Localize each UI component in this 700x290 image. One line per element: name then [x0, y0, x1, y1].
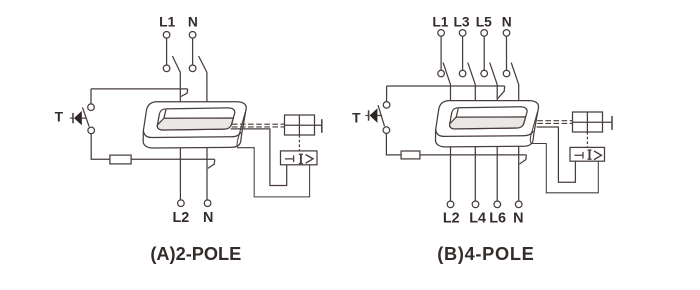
wire core to L2 terminal	[179, 148, 181, 200]
relay armature line	[285, 124, 322, 126]
wire core to L6 terminal	[496, 146, 498, 201]
dashed link relay to detector right	[586, 132, 588, 147]
terminal N top	[189, 32, 196, 39]
svg-text:L1: L1	[159, 14, 175, 29]
test button T	[70, 104, 95, 134]
fixed contact L1	[163, 65, 170, 72]
blade L3 and wire to core	[468, 63, 476, 101]
blade N and wire to core	[511, 63, 519, 101]
svg-text:N: N	[513, 211, 523, 227]
secondary winding and lead right	[530, 112, 598, 193]
terminal L2 right	[447, 201, 454, 208]
winding tap flag on N wire	[208, 159, 215, 168]
detector letter I	[300, 155, 302, 164]
wire N	[506, 36, 508, 70]
svg-text:N: N	[188, 14, 198, 29]
terminal N bottom	[204, 200, 211, 207]
switch blade L1 and wire to core	[172, 56, 180, 102]
svg-text:(B)4-POLE: (B)4-POLE	[437, 244, 534, 264]
detector I> box right	[570, 147, 605, 161]
fixed contact L5	[481, 70, 488, 77]
trip relay U2 box	[573, 112, 603, 132]
wire N terminal to fixed contact	[192, 38, 194, 65]
relay plunger end bar right	[611, 116, 613, 130]
svg-text:T: T	[55, 110, 64, 125]
terminal L4	[472, 201, 479, 208]
wire L1	[440, 36, 442, 70]
relay divider right	[586, 112, 588, 132]
test button T right : bar stub	[365, 115, 368, 117]
dashed link relay to detector	[298, 135, 300, 151]
relay armature line right	[573, 121, 612, 123]
core CT1	[143, 102, 246, 148]
secondary winding and lead to detector	[237, 112, 309, 197]
wire core to L2 terminal right	[450, 146, 452, 201]
terminal N bottom right	[515, 201, 522, 208]
wire resistor to N pole right	[420, 154, 527, 156]
wire test button to top horizontal	[386, 86, 388, 102]
blade L5 and wire to core	[490, 63, 498, 101]
fixed contact L3	[459, 70, 466, 77]
svg-text:L4: L4	[469, 211, 486, 227]
detector greater-than right	[594, 151, 601, 160]
terminal L3 top	[459, 30, 466, 37]
winding tap flag on N wire right	[520, 155, 527, 164]
wire core to N bottom terminal	[206, 148, 208, 200]
detector I> box	[281, 151, 318, 165]
wire core to N bottom terminal right	[518, 146, 520, 201]
detector letter I right	[589, 150, 591, 159]
magnetic link dashed pair right	[537, 121, 572, 124]
magnetic link dashed pair	[232, 124, 284, 127]
svg-text:L1: L1	[432, 14, 448, 29]
wire test button to resistor	[91, 134, 110, 160]
winding tap flag on L5 wire	[498, 86, 505, 98]
terminal L1 top	[438, 30, 445, 37]
core CT2	[436, 101, 539, 147]
wire core to L4 terminal	[474, 146, 476, 201]
resistor R	[110, 155, 131, 164]
detector greater-than	[306, 155, 313, 164]
wire L1 terminal to fixed contact	[166, 38, 168, 65]
winding tap flag on L1 wire	[181, 89, 188, 97]
test wire top horizontal	[91, 88, 188, 90]
wire test button to top horizontal	[90, 89, 92, 104]
secondary lead 1 right	[537, 127, 576, 182]
resistor R right	[401, 151, 420, 159]
blade L1 and wire to core	[443, 63, 450, 101]
test button T right : bottom contact	[383, 127, 390, 134]
terminal N top	[503, 30, 510, 37]
test button T right : top contact	[383, 102, 390, 109]
terminal L5 top	[481, 30, 488, 37]
fixed contact L1	[438, 70, 445, 77]
wire L3	[462, 36, 464, 70]
svg-text:(A)2-POLE: (A)2-POLE	[150, 244, 241, 264]
svg-text:L2: L2	[443, 211, 460, 227]
secondary lead 1 to detector	[231, 129, 287, 186]
test button T right : link line	[377, 115, 382, 117]
fixed contact N	[503, 70, 510, 77]
switch blade N and wire to core	[199, 56, 207, 102]
svg-text:T: T	[352, 110, 361, 125]
test button T right : bar	[368, 110, 370, 120]
wire L5	[483, 36, 485, 70]
svg-text:L5: L5	[476, 14, 492, 29]
fixed contact N	[189, 65, 196, 72]
svg-text:N: N	[203, 210, 213, 226]
test button T right : blade	[378, 105, 385, 126]
relay plunger end bar	[321, 119, 323, 133]
relay divider	[298, 115, 300, 135]
terminal L1 top	[163, 32, 170, 39]
trip relay U1 box	[285, 115, 315, 135]
detector dash symbol right	[574, 152, 583, 159]
wire test button to resistor right	[386, 133, 401, 155]
terminal L6	[494, 201, 501, 208]
detector dash symbol	[285, 155, 294, 162]
svg-text:L3: L3	[453, 14, 469, 29]
test wire top horizontal right	[387, 85, 505, 87]
svg-text:L2: L2	[173, 210, 190, 226]
wire resistor to N pole	[131, 158, 215, 160]
terminal L2	[178, 200, 185, 207]
svg-text:L6: L6	[489, 211, 506, 227]
test button T right : arrow triangle	[370, 108, 378, 122]
svg-text:N: N	[502, 14, 512, 29]
